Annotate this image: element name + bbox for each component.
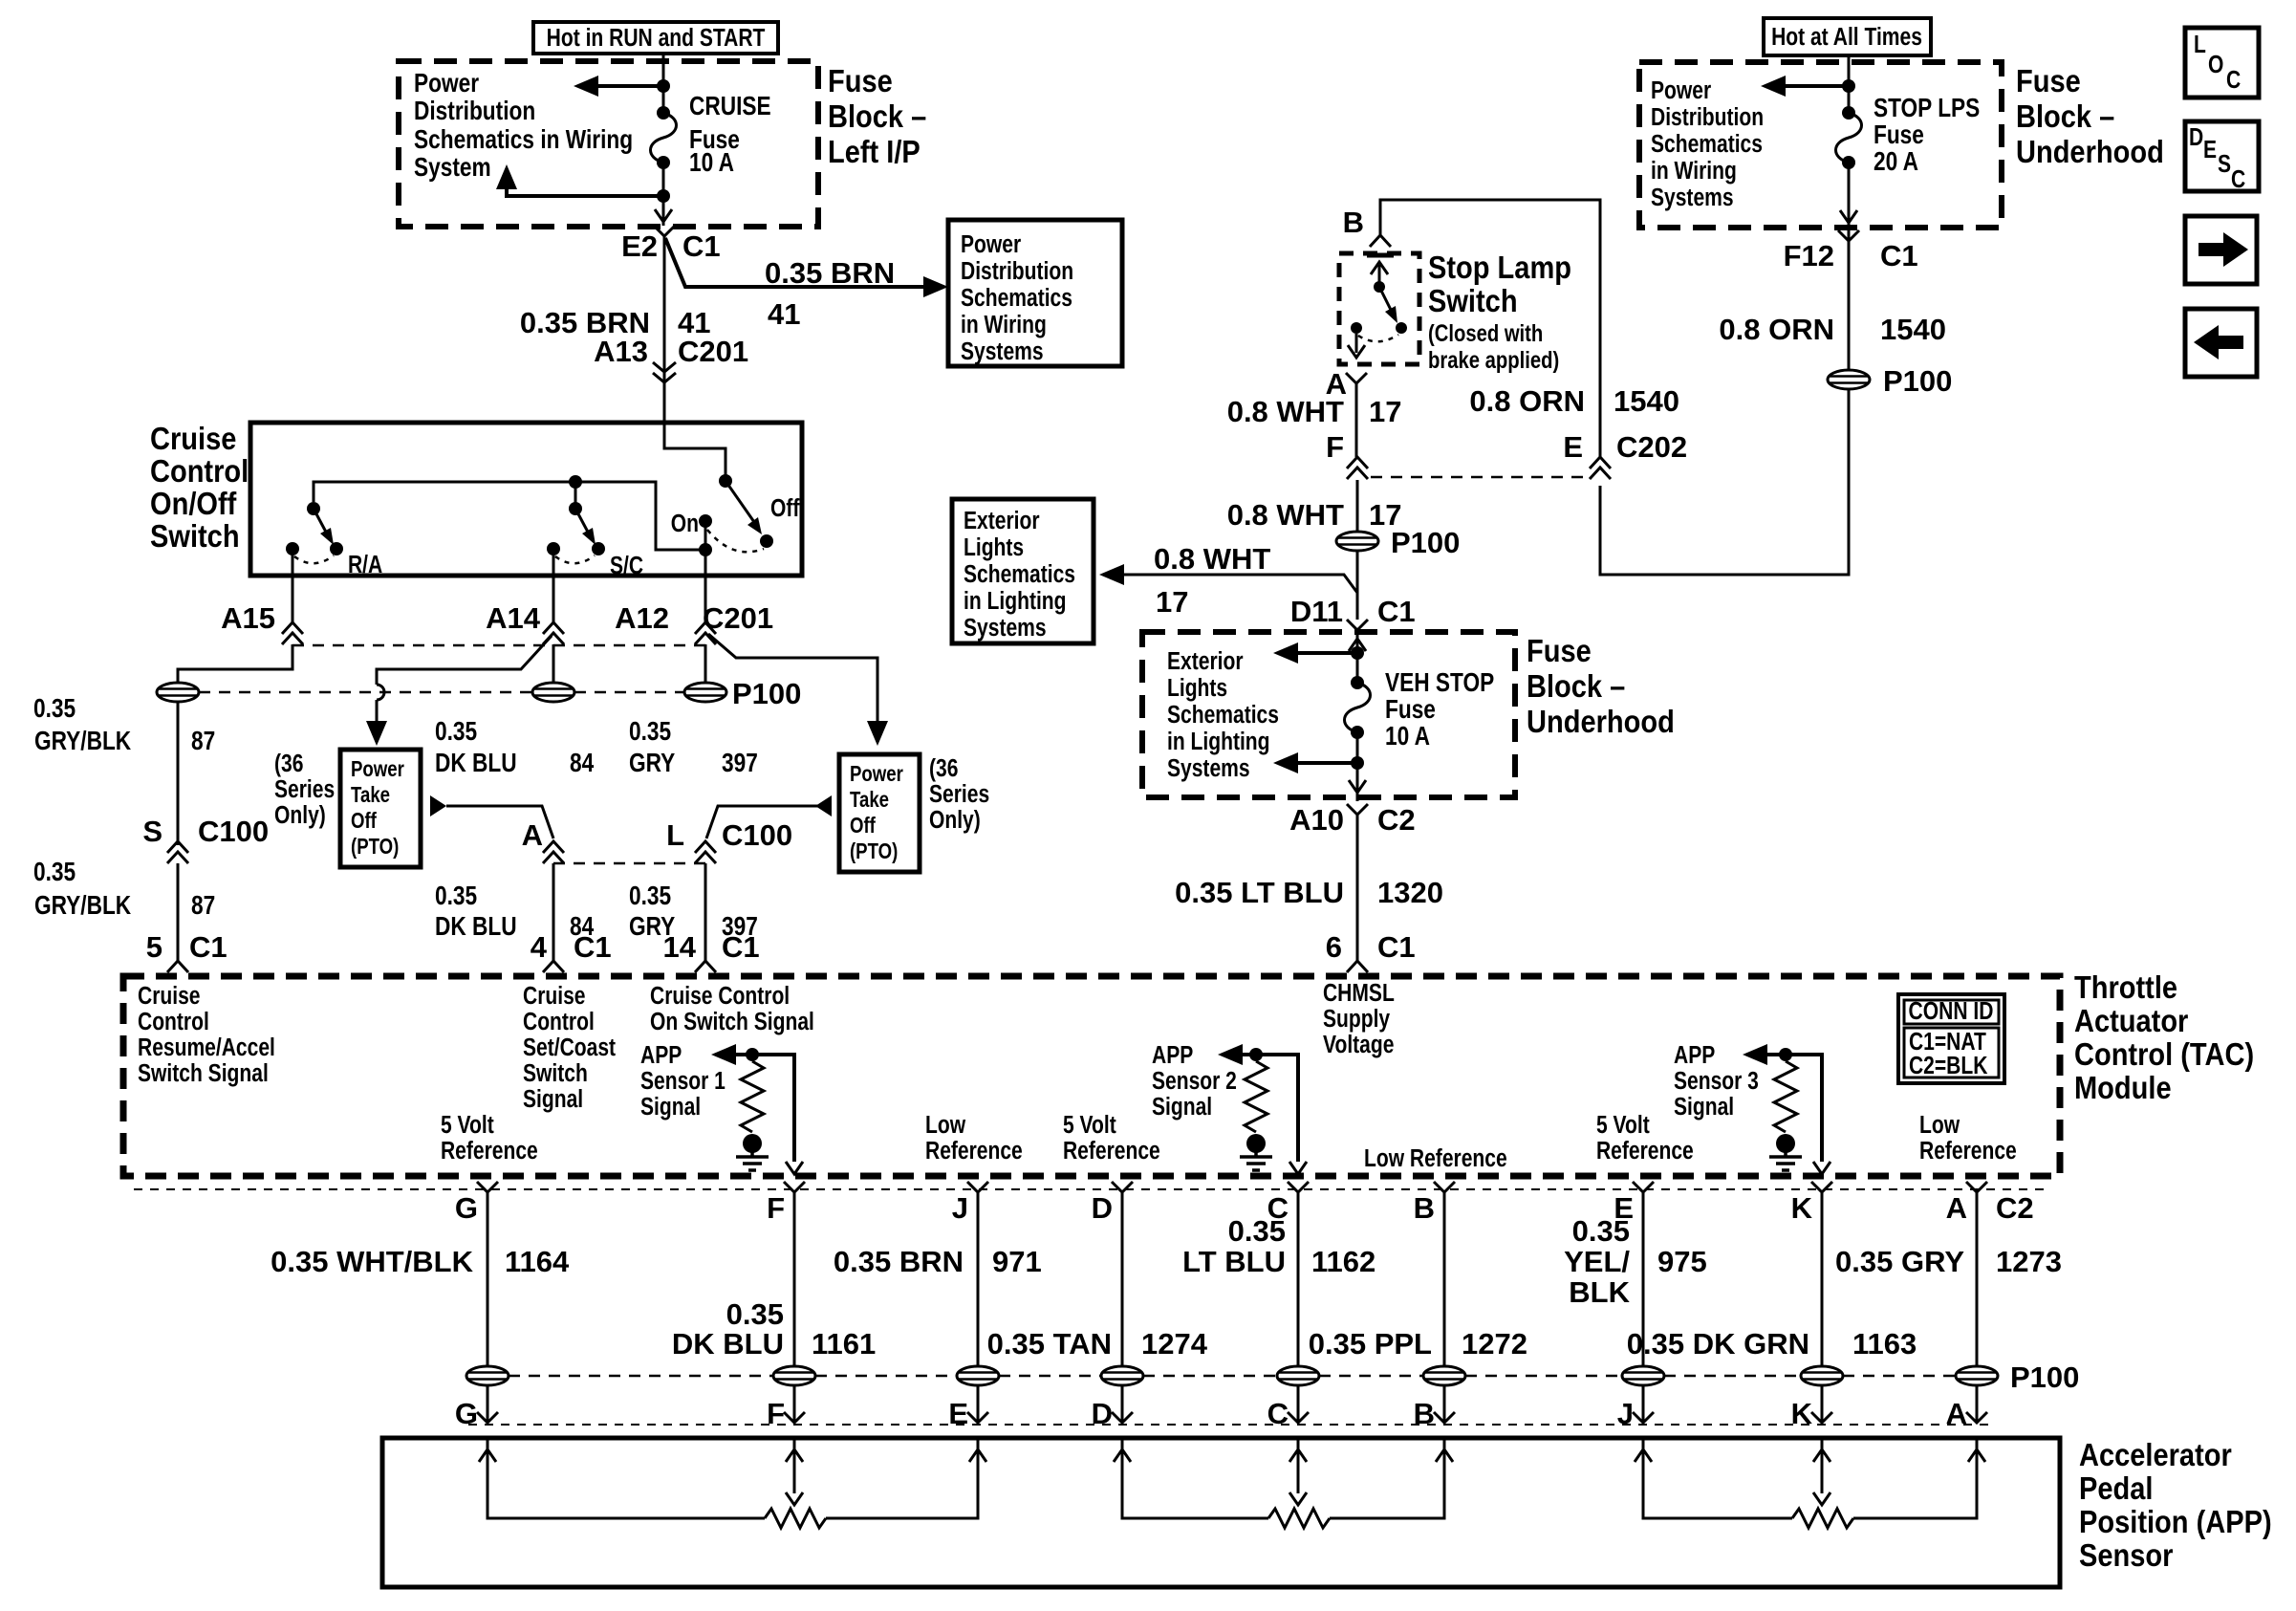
label APP sensor 2 signal: [1152, 1042, 1237, 1121]
svg-text:L: L: [666, 818, 684, 852]
potentiometer 1 resistor: [765, 1509, 826, 1528]
label (36 Series Only) left: [274, 751, 335, 830]
svg-text:F: F: [1326, 430, 1344, 464]
connector C2 pin A: [1946, 1182, 2034, 1225]
icon box DESC: [2185, 121, 2259, 194]
svg-text:14: 14: [663, 930, 697, 964]
label power distribution schematics in wiring system: [414, 69, 633, 183]
svg-text:Hot in RUN and START: Hot in RUN and START: [547, 25, 766, 53]
svg-text:On: On: [671, 511, 699, 538]
connector P100 pass-through D: [1101, 1366, 1143, 1385]
svg-text:D: D: [1092, 1191, 1113, 1225]
svg-text:0.35: 0.35: [1228, 1214, 1286, 1248]
switch arm (stop lamp): [1379, 287, 1397, 323]
svg-text:17: 17: [1156, 585, 1188, 619]
wire 0.8 WHT 17 (A to F): [1355, 383, 1358, 457]
svg-text:0.35 TAN: 0.35 TAN: [987, 1327, 1112, 1361]
svg-text:Sensor 3: Sensor 3: [1674, 1068, 1759, 1096]
label 6 C1: [1326, 930, 1416, 964]
svg-text:Cruise: Cruise: [138, 983, 200, 1011]
svg-text:D: D: [2189, 124, 2203, 152]
svg-text:Reference: Reference: [441, 1138, 538, 1165]
label 0.35 GRY/BLK 87 lower: [33, 858, 215, 921]
APP pin K: [1791, 1397, 1832, 1430]
connector P100 pass-through B: [1423, 1366, 1465, 1385]
connector C2 pin J: [952, 1182, 988, 1225]
svg-text:0.35 WHT/BLK: 0.35 WHT/BLK: [271, 1245, 473, 1278]
label Stop Lamp Switch: [1428, 250, 1571, 373]
fuse STOP LPS 20A: [1836, 106, 1862, 169]
svg-text:C2: C2: [1996, 1191, 2034, 1225]
svg-text:1320: 1320: [1377, 876, 1443, 909]
svg-text:5 Volt: 5 Volt: [1596, 1112, 1650, 1140]
svg-text:Fuse: Fuse: [1385, 695, 1436, 725]
svg-text:(Closed with: (Closed with: [1428, 319, 1543, 347]
wire 0.35 BRN 41 down: [663, 236, 666, 423]
APP pin J: [1617, 1397, 1654, 1430]
svg-text:1273: 1273: [1996, 1245, 2062, 1278]
svg-text:Systems: Systems: [964, 615, 1047, 642]
junction dot sensor 3: [1779, 1048, 1792, 1061]
label 0.35 LT BLU 1320: [1175, 876, 1443, 909]
svg-text:A10: A10: [1289, 803, 1344, 837]
label 0.35 GRY 1273: [1835, 1245, 2062, 1278]
label cruise control resume/accel switch signal: [138, 983, 275, 1088]
svg-text:Power: Power: [850, 762, 903, 786]
svg-text:CHMSL: CHMSL: [1323, 980, 1395, 1008]
potentiometer 2 resistor: [1268, 1509, 1330, 1528]
arrow out of fuse block: [655, 209, 672, 222]
svg-text:Power: Power: [351, 757, 404, 781]
svg-text:F: F: [767, 1191, 785, 1225]
svg-text:Series: Series: [274, 776, 335, 804]
junction dot: [1351, 646, 1364, 660]
dashed connector line P100 lower: [509, 1375, 1956, 1378]
svg-text:APP: APP: [640, 1042, 682, 1070]
node Hot in RUN and START: [533, 22, 778, 54]
svg-text:5 Volt: 5 Volt: [1063, 1112, 1116, 1140]
svg-text:C1: C1: [189, 930, 227, 964]
svg-text:Schematics: Schematics: [1167, 702, 1279, 729]
svg-text:R/A: R/A: [348, 552, 382, 579]
svg-text:in Wiring: in Wiring: [1651, 158, 1737, 185]
connector C1 pin 5: [167, 961, 188, 972]
svg-text:GRY/BLK: GRY/BLK: [34, 727, 132, 756]
label cruise control set/coast switch signal: [523, 983, 616, 1114]
connector C2 pin K: [1791, 1182, 1832, 1225]
wire D to P100: [1121, 1192, 1124, 1366]
potentiometer 3 resistor: [1792, 1509, 1853, 1528]
label S C100: [142, 815, 269, 848]
svg-text:397: 397: [722, 749, 758, 778]
wire 0.35 LT BLU 1320: [1356, 815, 1359, 961]
potentiometer 2 wires: [1114, 1440, 1453, 1518]
svg-text:APP: APP: [1152, 1042, 1193, 1070]
svg-text:Actuator: Actuator: [2074, 1003, 2188, 1038]
svg-text:Sensor 2: Sensor 2: [1152, 1068, 1237, 1096]
connector C2 pin E: [1614, 1182, 1654, 1225]
svg-text:A13: A13: [594, 335, 648, 368]
wire G to APP: [487, 1385, 489, 1423]
svg-text:Stop Lamp: Stop Lamp: [1428, 250, 1571, 285]
svg-text:975: 975: [1657, 1245, 1707, 1278]
wire 0.35 GRY/BLK 87 lower: [177, 863, 180, 961]
svg-text:Systems: Systems: [1167, 755, 1250, 783]
svg-text:C2: C2: [1377, 803, 1416, 837]
svg-text:41: 41: [768, 297, 800, 331]
svg-text:B: B: [1343, 206, 1364, 239]
dashed connector line C100: [553, 862, 705, 865]
switch arm S/C: [575, 509, 596, 545]
svg-text:0.35 BRN: 0.35 BRN: [834, 1245, 964, 1278]
module U1 throttle actuator control TAC (dashed box): [123, 976, 2060, 1176]
icon box arrow right: [2185, 216, 2257, 284]
svg-text:C: C: [2226, 67, 2241, 95]
svg-text:B: B: [1414, 1191, 1435, 1225]
node power take off PTO right: [839, 754, 920, 872]
svg-text:A14: A14: [486, 601, 541, 635]
svg-text:0.35 GRY: 0.35 GRY: [1835, 1245, 1964, 1278]
svg-text:in Lighting: in Lighting: [1167, 729, 1270, 756]
svg-text:VEH STOP: VEH STOP: [1385, 668, 1494, 698]
node CONN ID table: [1898, 994, 2004, 1083]
switch S1 cruise control on/off switch box: [250, 423, 802, 576]
switch terminal B chevron: [1370, 235, 1391, 247]
label VEH STOP Fuse 10 A: [1385, 668, 1494, 751]
wire B to APP: [1443, 1385, 1446, 1423]
svg-text:Block –: Block –: [1527, 668, 1625, 704]
fuse block left I/P (dashed box): [399, 61, 818, 227]
svg-text:C: C: [1267, 1397, 1289, 1430]
wire A15 to P100: [178, 644, 292, 683]
svg-text:A15: A15: [221, 601, 275, 635]
svg-text:Low: Low: [925, 1112, 966, 1140]
connector C1 pin 4: [543, 961, 564, 972]
svg-text:J: J: [1617, 1397, 1634, 1430]
svg-text:Exterior: Exterior: [1167, 648, 1244, 676]
label 5 volt reference (G): [441, 1112, 538, 1165]
fuse VEH STOP 10A: [1345, 676, 1371, 739]
icon box arrow left: [2185, 309, 2257, 377]
svg-text:(PTO): (PTO): [351, 835, 399, 859]
label 0.35 BRN 41: [520, 306, 711, 339]
wire PTO left to A14 connector: [430, 795, 553, 838]
svg-text:S/C: S/C: [610, 553, 643, 580]
svg-text:Distribution: Distribution: [961, 258, 1073, 286]
svg-text:P100: P100: [2010, 1361, 2079, 1394]
node Hot at All Times: [1764, 18, 1931, 55]
svg-text:Schematics in Wiring: Schematics in Wiring: [414, 125, 633, 155]
svg-text:CONN ID: CONN ID: [1909, 998, 1994, 1026]
svg-text:1274: 1274: [1141, 1327, 1208, 1361]
svg-text:Pedal: Pedal: [2079, 1470, 2153, 1506]
switch arm tip dot: [1396, 322, 1407, 334]
wire G to P100: [487, 1192, 489, 1366]
svg-text:C1: C1: [682, 229, 721, 263]
wire branch 0.8 WHT 17 to exterior lights: [1099, 564, 1357, 593]
wire S/C riser: [574, 482, 577, 509]
wire 0.35 GRY 397 lower: [704, 863, 707, 961]
svg-text:Schematics: Schematics: [1651, 131, 1763, 159]
svg-text:Off: Off: [770, 495, 799, 523]
svg-text:0.35: 0.35: [435, 882, 477, 911]
wire J to APP: [977, 1385, 980, 1423]
svg-text:6: 6: [1326, 930, 1342, 964]
wire R/A contact down to A15: [292, 549, 294, 622]
label Throttle Actuator Control (TAC) Module: [2074, 969, 2254, 1105]
contact dot R/A: [330, 542, 343, 555]
svg-text:C202: C202: [1616, 430, 1687, 464]
dashed throw arc R/A: [294, 555, 334, 563]
svg-text:C1: C1: [1880, 239, 1918, 272]
svg-text:0.35 LT BLU: 0.35 LT BLU: [1175, 876, 1344, 909]
svg-text:C100: C100: [722, 818, 792, 852]
switch terminal A chevron: [1346, 373, 1367, 383]
wire F to APP: [793, 1385, 796, 1423]
potentiometer 3 wires: [1635, 1440, 1985, 1518]
svg-text:S: S: [142, 815, 162, 848]
label low reference (A): [1919, 1112, 2017, 1165]
label CHMSL supply voltage: [1323, 980, 1395, 1059]
svg-text:0.35: 0.35: [629, 717, 671, 747]
contact dot On: [699, 514, 712, 528]
svg-text:Control: Control: [138, 1009, 209, 1036]
wire below fuse: [1356, 732, 1359, 801]
contact dot Off: [760, 534, 773, 548]
svg-text:YEL/: YEL/: [1564, 1245, 1630, 1278]
APP pin F: [767, 1397, 805, 1430]
svg-text:G: G: [455, 1397, 478, 1430]
svg-text:Supply: Supply: [1323, 1006, 1391, 1034]
wire J to P100: [977, 1192, 980, 1366]
label D11 C1: [1290, 595, 1416, 628]
label APP sensor 3 signal: [1674, 1042, 1759, 1121]
label 0.35 BRN 41 (branch): [765, 256, 895, 331]
svg-text:C1: C1: [1377, 595, 1416, 628]
wire on contact down: [704, 521, 707, 622]
APP pin B: [1414, 1397, 1455, 1430]
svg-text:Take: Take: [351, 783, 390, 807]
label 4 C1: [531, 930, 612, 964]
APP pin D: [1092, 1397, 1133, 1430]
connector P100 pass-through mid: [532, 683, 574, 702]
ground sensor 1: [736, 1134, 769, 1170]
svg-text:Voltage: Voltage: [1323, 1032, 1394, 1059]
connector C2 pin B: [1414, 1182, 1455, 1225]
connector C100 pin L: [695, 841, 716, 863]
label exterior lights schematics in lighting systems (inner): [1167, 648, 1279, 783]
svg-text:Only): Only): [274, 802, 326, 830]
resistor sensor 1: [741, 1061, 764, 1132]
connector C100 pin A: [543, 841, 564, 863]
connector C2 pin A10: [1347, 804, 1368, 815]
svg-text:Sensor 1: Sensor 1: [640, 1068, 726, 1096]
svg-text:Off: Off: [850, 814, 876, 838]
svg-text:Cruise Control: Cruise Control: [650, 983, 790, 1011]
svg-text:Signal: Signal: [1152, 1094, 1212, 1121]
svg-text:J: J: [952, 1191, 968, 1225]
svg-text:Switch: Switch: [150, 518, 240, 554]
label L C100: [666, 818, 792, 852]
dashed connector line C201: [292, 644, 705, 647]
svg-text:Switch: Switch: [1428, 283, 1518, 318]
icon box LOC: [2185, 28, 2259, 98]
svg-text:0.8 ORN: 0.8 ORN: [1469, 384, 1585, 418]
svg-text:0.35: 0.35: [629, 882, 671, 911]
svg-text:Reference: Reference: [1596, 1138, 1694, 1165]
svg-text:0.35 DK GRN: 0.35 DK GRN: [1627, 1327, 1809, 1361]
connector P100 pass-through right: [684, 683, 726, 702]
dashed throw arc S/C: [555, 555, 595, 563]
dashed throw arc on/off: [707, 530, 764, 552]
connector C1 pin 14: [695, 961, 716, 972]
svg-text:S: S: [2218, 151, 2231, 179]
connector P100 pass-through (wht): [1336, 532, 1378, 551]
wire power into switch: [664, 423, 726, 481]
connector C2 pin G: [455, 1182, 498, 1225]
connector P100 pass-through (orn): [1828, 370, 1870, 389]
svg-text:Distribution: Distribution: [414, 97, 535, 126]
label 0.35 DK BLU 84 upper: [435, 717, 595, 778]
svg-text:0.35: 0.35: [1572, 1214, 1630, 1248]
switch arm on/off: [726, 481, 762, 534]
fuse block underhood (dashed box, top): [1639, 62, 2002, 228]
junction dot: [1351, 756, 1364, 770]
connector C1 pin F12: [1838, 230, 1859, 241]
svg-text:CRUISE: CRUISE: [689, 92, 771, 121]
wire arrow left (power distribution): [1761, 76, 1849, 97]
svg-text:G: G: [455, 1191, 478, 1225]
svg-text:Signal: Signal: [1674, 1094, 1734, 1121]
connector C2 pin D: [1092, 1182, 1133, 1225]
svg-text:C2=BLK: C2=BLK: [1909, 1053, 1987, 1080]
svg-text:1164: 1164: [505, 1245, 570, 1278]
dashed connector line C202: [1371, 476, 1590, 479]
svg-text:Cruise: Cruise: [150, 421, 236, 456]
potentiometer 3 wiper: [1813, 1440, 1830, 1505]
svg-text:GRY: GRY: [629, 749, 675, 778]
label accelerator pedal position APP sensor: [2079, 1437, 2272, 1573]
label 0.8 WHT 17 (branch): [1154, 542, 1270, 619]
label 5 C1: [146, 930, 227, 964]
svg-text:C1: C1: [1377, 930, 1416, 964]
resistor sensor 3: [1774, 1061, 1797, 1132]
svg-text:Left I/P: Left I/P: [828, 134, 921, 169]
dashed connector line APP pins: [468, 1424, 1988, 1426]
svg-text:Throttle: Throttle: [2074, 969, 2177, 1005]
resistor sensor 2: [1245, 1061, 1267, 1132]
arrow into PTO left: [366, 721, 387, 746]
svg-text:0.35: 0.35: [435, 717, 477, 747]
switch arm arrow up to B: [1371, 262, 1388, 287]
connector C202 pin E: [1590, 457, 1611, 479]
svg-text:brake applied): brake applied): [1428, 346, 1559, 374]
label 14 C1: [663, 930, 760, 964]
wire K to P100: [1821, 1192, 1824, 1366]
label 0.8 ORN 1540 right branch: [1719, 313, 1946, 346]
svg-text:Series: Series: [929, 781, 989, 809]
svg-text:C1: C1: [574, 930, 612, 964]
label 0.35 WHT/BLK 1164: [271, 1245, 570, 1278]
svg-text:F: F: [767, 1397, 785, 1430]
connector C2 pin C: [1267, 1182, 1309, 1225]
svg-text:Module: Module: [2074, 1070, 2172, 1105]
svg-text:0.35: 0.35: [33, 858, 76, 887]
svg-text:Take: Take: [850, 788, 889, 812]
svg-text:A: A: [1946, 1397, 1967, 1430]
switch pivot dot: [1374, 281, 1385, 293]
svg-text:17: 17: [1369, 395, 1401, 428]
svg-text:B: B: [1414, 1397, 1435, 1430]
svg-text:Control: Control: [523, 1009, 595, 1036]
switch pivot dot R/A: [307, 502, 320, 515]
switch fixed contact bar B: [1367, 253, 1394, 258]
svg-text:D11: D11: [1290, 595, 1343, 628]
arrow up into fuse block: [1349, 639, 1366, 651]
label Fuse Block - Left I/P: [828, 63, 926, 169]
wire contact A down with arrow: [1348, 334, 1365, 358]
label 0.35 GRY 397 upper: [629, 717, 758, 778]
label cruise control on switch signal: [650, 983, 814, 1036]
label 5 volt reference (E): [1596, 1112, 1694, 1165]
svg-text:0.35 PPL: 0.35 PPL: [1309, 1327, 1432, 1361]
wire E to P100: [1642, 1192, 1645, 1366]
switch S2 stop lamp switch box (dashed): [1339, 253, 1419, 364]
svg-text:A: A: [1946, 1191, 1967, 1225]
svg-text:87: 87: [191, 891, 215, 921]
svg-text:DK BLU: DK BLU: [435, 749, 517, 778]
switch pivot dot S/C: [569, 502, 582, 515]
label 0.35 GRY 397 lower: [629, 882, 758, 942]
svg-text:P100: P100: [732, 677, 801, 710]
svg-text:0.8 WHT: 0.8 WHT: [1154, 542, 1270, 576]
dashed connector line P100: [199, 691, 684, 694]
connector C1 pin E2: [654, 226, 675, 236]
label 0.35 DK BLU 1161: [672, 1297, 876, 1361]
svg-text:Low: Low: [1919, 1112, 1960, 1140]
svg-text:D: D: [1092, 1397, 1113, 1430]
contact dot S/C common: [547, 542, 560, 555]
svg-text:C201: C201: [678, 335, 748, 368]
wire into veh stop fuse: [1356, 630, 1359, 683]
label E C202: [1563, 430, 1687, 464]
svg-text:Hot at All Times: Hot at All Times: [1771, 24, 1922, 52]
svg-text:(36: (36: [929, 755, 958, 783]
arrow out of fuse block: [1349, 780, 1366, 793]
label (36 Series Only) right: [929, 755, 989, 835]
connector P100 pass-through E: [1622, 1366, 1664, 1385]
switch pivot dot (on/off): [719, 474, 732, 488]
wire below fuse: [662, 163, 665, 226]
svg-text:P100: P100: [1883, 364, 1952, 398]
svg-text:On/Off: On/Off: [150, 486, 237, 521]
svg-text:87: 87: [191, 727, 215, 756]
svg-text:C1: C1: [722, 930, 760, 964]
wire D to APP: [1121, 1385, 1124, 1423]
label Fuse Block - Underhood (lower): [1527, 633, 1675, 739]
wire branch to PTO right: [708, 634, 877, 723]
svg-text:Power: Power: [1651, 77, 1711, 105]
svg-text:Reference: Reference: [925, 1138, 1023, 1165]
svg-text:Control (TAC): Control (TAC): [2074, 1036, 2254, 1072]
label STOP LPS Fuse 20 A: [1874, 94, 1980, 177]
dashed throw arc stop lamp: [1358, 335, 1398, 341]
svg-text:A: A: [522, 818, 543, 852]
svg-text:LT BLU: LT BLU: [1182, 1245, 1286, 1278]
svg-text:Set/Coast: Set/Coast: [523, 1034, 616, 1062]
junction dot sensor 2: [1249, 1048, 1263, 1061]
APP pin C: [1267, 1397, 1309, 1430]
